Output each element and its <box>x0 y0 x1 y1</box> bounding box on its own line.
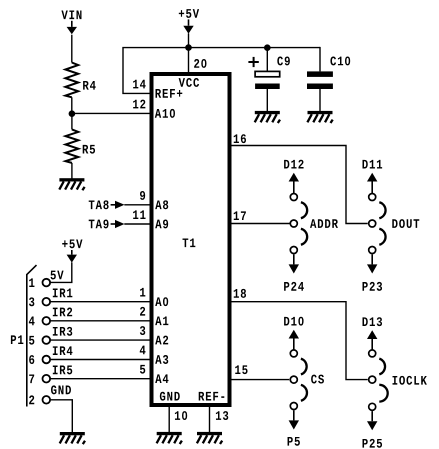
wire pin 10 GND to ground <box>168 405 170 432</box>
connector P1 bracket <box>27 265 37 406</box>
arrow to P24 <box>289 254 299 273</box>
jumper pin bottom (P25) <box>369 403 376 410</box>
node TA8 label <box>89 200 109 209</box>
pin number 2 <box>140 307 145 316</box>
wire TA9 to pin 11 <box>124 223 150 225</box>
jumper pin middle (CS) <box>290 376 297 383</box>
connector pin circle P1-2 <box>43 396 51 404</box>
connector pin circle P1-3 <box>43 298 51 306</box>
wire IR4 to A3 <box>50 359 150 361</box>
ground below C10 <box>307 111 332 123</box>
jumper pin middle (DOUT) <box>369 220 376 227</box>
wire node A to pin 12 A10 <box>72 112 151 114</box>
pin number 12 <box>133 100 145 109</box>
label C9 <box>277 57 290 66</box>
wire VIN to R4 <box>71 35 73 63</box>
connector pin circle P1-4 <box>43 317 51 325</box>
pin label A10 <box>155 109 175 118</box>
connector designator P1 <box>11 335 23 344</box>
jumper pin middle (IOCLK) <box>369 376 376 383</box>
pin label VCC <box>179 78 199 87</box>
net label IR5 <box>53 366 72 375</box>
pin label REF- <box>199 392 225 401</box>
node P24 label <box>284 282 304 291</box>
power arrow +5V top <box>183 19 193 33</box>
pin label A2 <box>155 336 168 345</box>
pin number 4 <box>140 346 146 355</box>
wire IR3 to A2 <box>50 339 150 341</box>
pin number 18 <box>234 289 246 298</box>
jumper pin top (D13) <box>369 350 376 357</box>
net label DOUT <box>392 219 419 228</box>
jumper pin bottom (P23) <box>369 247 376 254</box>
ground below pin 10 <box>157 432 182 444</box>
jumper pin middle (ADDR) <box>290 220 297 227</box>
label R5 <box>83 145 95 154</box>
wire pin 16 to DOUT jumper <box>231 146 368 224</box>
wire R4 to node A <box>71 97 73 113</box>
arrow TA8 <box>111 201 125 209</box>
ground below R5 <box>59 178 84 190</box>
pin number P1-5 <box>29 336 34 345</box>
wire +5V to pin 1 <box>50 262 71 282</box>
node D12 label <box>284 160 303 169</box>
label C10 <box>330 57 350 66</box>
pin number 14 <box>133 80 146 89</box>
pin number 5 <box>140 365 145 374</box>
jumper arc D13/IOCLK <box>379 359 385 375</box>
net label 5V <box>51 271 64 280</box>
jumper arc D12/ADDR <box>301 202 307 218</box>
power +5V label top <box>179 9 199 18</box>
wire R5 to ground <box>71 163 73 179</box>
pin label A4 <box>155 374 168 383</box>
pin number P1-7 <box>29 374 34 383</box>
wire TA8 to pin 9 <box>124 204 150 206</box>
power arrow +5V left <box>67 250 77 263</box>
arrow to D13 <box>367 330 377 350</box>
jumper pin top (D12) <box>290 194 297 201</box>
pin number 17 <box>234 211 246 220</box>
node A junction R4/R5 <box>69 110 76 117</box>
wire pin 15 to CS jumper <box>231 379 290 381</box>
jumper arc DOUT/P23 <box>379 229 385 245</box>
pin number 9 <box>140 191 145 200</box>
net label CS <box>311 375 324 384</box>
jumper pin top (D11) <box>369 194 376 201</box>
jumper arc D10/CS <box>301 359 307 375</box>
ground below P1 GND <box>60 432 85 444</box>
pin number 1 <box>140 288 145 297</box>
wire +5V to pin 20 VCC <box>188 33 190 75</box>
jumper arc ADDR/P24 <box>301 229 307 245</box>
pin number 20 <box>194 59 206 68</box>
node D13 label <box>363 317 383 326</box>
junction at C9 <box>264 44 271 51</box>
pin label REF+ <box>156 89 183 98</box>
wire node A to R5 <box>71 114 73 130</box>
arrow to P5 <box>289 410 299 429</box>
connector pin circle P1-1 <box>43 279 51 287</box>
pin label A9 <box>155 220 168 229</box>
pin number 10 <box>175 411 187 420</box>
wire P1-2 GND to ground <box>50 400 72 432</box>
jumper pin top (D10) <box>290 350 297 357</box>
pin number P1-1 <box>29 278 34 287</box>
node P25 label <box>363 439 383 448</box>
IC designator T1 <box>183 238 196 247</box>
pin label A0 <box>155 297 168 306</box>
pin number P1-3 <box>29 297 34 306</box>
node D10 label <box>284 317 303 326</box>
pin label A1 <box>155 316 168 325</box>
net label IR2 <box>53 308 72 317</box>
pin number 3 <box>140 326 145 335</box>
wire to C9 <box>266 48 268 72</box>
jumper arc CS/P5 <box>301 385 307 401</box>
pin number 13 <box>216 411 228 420</box>
node TA9 label <box>89 220 109 229</box>
wire rail right to capacitors <box>189 47 321 49</box>
jumper pin bottom (P5) <box>290 403 297 410</box>
arrow to P23 <box>367 254 377 273</box>
wire pin 18 to IOCLK jumper <box>231 302 368 380</box>
IC U/T1 outline <box>152 74 230 405</box>
pin number 15 <box>235 365 247 374</box>
ground below pin 13 <box>197 432 222 444</box>
capacitor C10 <box>307 71 333 89</box>
arrow to D10 <box>289 330 299 350</box>
junction +5V rail <box>185 44 192 51</box>
capacitor C9 polarized <box>255 71 280 89</box>
resistor R4 <box>65 63 78 98</box>
wire C10 to ground <box>319 89 321 111</box>
wire to C10 <box>319 47 321 72</box>
connector pin circle P1-7 <box>43 375 51 383</box>
arrow to D11 <box>367 173 377 194</box>
net label IOCLK <box>393 376 427 385</box>
wire pin 13 REF- to ground <box>209 405 211 432</box>
resistor R5 <box>66 129 79 163</box>
node VIN label <box>61 10 81 19</box>
connector pin circle P1-5 <box>43 336 51 344</box>
wire rail left to pin 14 REF+ <box>123 48 189 94</box>
arrow to P25 <box>367 411 377 430</box>
arrow to D12 <box>289 173 299 194</box>
arrow TA9 <box>111 220 125 228</box>
wire IR1 to A0 <box>50 301 150 303</box>
jumper pin bottom (P24) <box>290 247 297 254</box>
pin label A8 <box>155 200 168 209</box>
wire IR2 to A1 <box>50 320 150 322</box>
connector pin circle P1-6 <box>43 356 51 364</box>
node P23 label <box>363 282 383 291</box>
pin number P1-4 <box>29 317 35 326</box>
net label ADDR <box>310 219 338 228</box>
pin number P1-6 <box>29 355 34 364</box>
wire C9 to ground <box>266 89 268 111</box>
wire pin 17 to ADDR jumper <box>231 223 290 225</box>
net label IR3 <box>53 327 72 336</box>
net label GND <box>51 385 71 394</box>
ground below C9 <box>255 111 280 123</box>
label R4 <box>83 81 96 90</box>
net label IR1 <box>53 289 73 298</box>
power +5V label left <box>62 239 82 248</box>
net label IR4 <box>53 346 73 355</box>
pin label A3 <box>155 355 168 364</box>
power arrow VIN <box>67 21 77 34</box>
jumper arc IOCLK/P25 <box>379 385 387 402</box>
node P5 label <box>288 437 300 446</box>
pin number P1-2 <box>29 395 34 404</box>
pin number 16 <box>234 134 246 143</box>
plus sign C9 <box>248 57 258 67</box>
wire IR5 to A4 <box>50 378 150 380</box>
pin number 11 <box>133 210 145 219</box>
pin label GND <box>160 392 180 401</box>
node D11 label <box>363 160 383 169</box>
jumper arc D11/DOUT <box>379 202 385 218</box>
